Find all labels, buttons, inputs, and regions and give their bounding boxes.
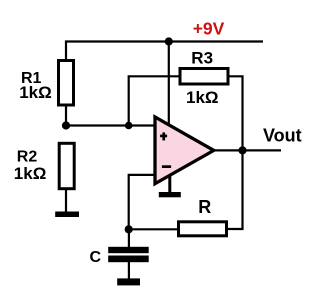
wire: divider node to op-amp + input xyxy=(66,124,156,126)
op-amp - input symbol xyxy=(162,165,171,168)
wire: C top lead xyxy=(128,229,130,248)
op-amp U1 xyxy=(155,117,214,184)
ground: op-amp ground bar xyxy=(159,192,181,197)
wire: R2 bottom lead xyxy=(65,189,67,212)
wire: - input wire from op-amp down to RC node xyxy=(129,175,156,229)
wire: RC node to R left lead xyxy=(129,228,178,230)
wire: op-amp output to Vout xyxy=(214,149,281,151)
svg-text:+9V: +9V xyxy=(193,18,225,38)
ground: C ground bar xyxy=(117,278,140,285)
node: + input / R3 tap junction dot xyxy=(125,122,133,130)
svg-text:C: C xyxy=(90,249,102,266)
wire: branch up from + input node to R3 left lead xyxy=(129,76,180,125)
capacitor C bottom plate xyxy=(108,256,149,263)
svg-text:1kΩ: 1kΩ xyxy=(19,83,52,102)
node: output junction dot xyxy=(238,146,246,154)
svg-text:Vout: Vout xyxy=(263,125,302,145)
wire: R1 bottom lead to divider node xyxy=(65,105,67,126)
svg-text:R: R xyxy=(198,197,211,217)
node: RC junction dot xyxy=(125,225,133,233)
svg-text:1kΩ: 1kΩ xyxy=(186,88,219,107)
wire: op-amp ground stub xyxy=(168,172,171,193)
ground: R2 ground bar xyxy=(55,212,79,218)
wire: R3 right lead, down right side to R right lead xyxy=(227,76,243,229)
svg-text:1kΩ: 1kΩ xyxy=(14,164,47,183)
svg-text:R3: R3 xyxy=(191,49,213,68)
node: R1/R2 divider junction dot xyxy=(62,121,70,129)
resistor R xyxy=(179,222,227,236)
resistor R2 xyxy=(59,143,74,188)
node: rail junction dot xyxy=(165,37,173,45)
resistor R1 xyxy=(59,61,74,106)
wire: supply stub from rail down to op-amp top xyxy=(168,42,170,128)
op-amp + input symbol xyxy=(160,135,167,138)
capacitor C top plate xyxy=(108,247,149,253)
wire: C bottom lead xyxy=(128,261,130,279)
wire: +9V rail with left drop to R1 xyxy=(66,42,263,61)
resistor R3 xyxy=(180,69,228,85)
